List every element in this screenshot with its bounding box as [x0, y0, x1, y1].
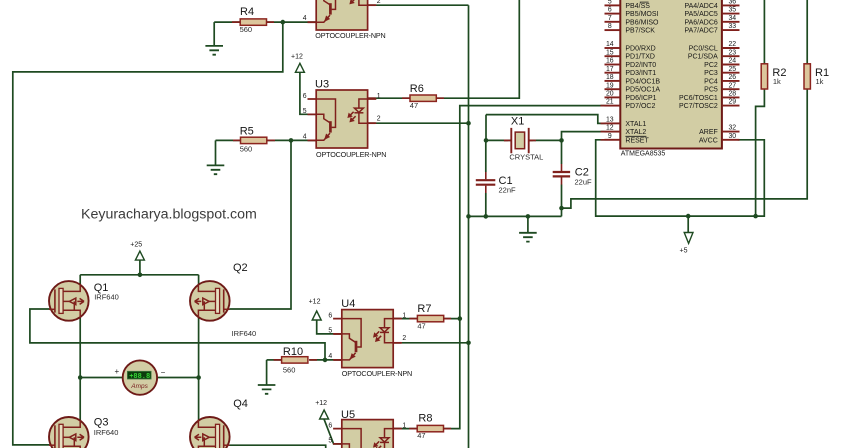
svg-text:8: 8 — [608, 23, 612, 30]
wire rail to Q2 drain — [198, 275, 200, 286]
transistor Q2 IRF640 — [190, 281, 230, 321]
svg-text:PC0/SCL: PC0/SCL — [689, 46, 718, 53]
svg-text:26: 26 — [728, 74, 736, 81]
U2 pin 2 stub — [368, 4, 376, 6]
svg-text:15: 15 — [606, 49, 614, 56]
U1 pin 23 PC1/SDA — [688, 49, 740, 60]
svg-text:5: 5 — [608, 0, 612, 6]
wire node R10 to Q1 gate — [30, 309, 325, 360]
svg-text:PD5/OC1A: PD5/OC1A — [625, 87, 660, 94]
svg-text:560: 560 — [240, 25, 253, 34]
junction node bridge left / meter — [78, 375, 83, 380]
wire ground stem at R4 — [213, 22, 215, 46]
U1 pin 22 PC0/SCL — [689, 41, 740, 52]
wire X1 node to top wire — [485, 115, 487, 141]
svg-text:30: 30 — [728, 133, 736, 140]
power +25 — [130, 242, 144, 261]
U1 pin 33 PA7/ADC7 — [684, 23, 739, 34]
svg-text:PD6/ICP1: PD6/ICP1 — [625, 95, 656, 102]
U1 pin 6 PB5/MOSI — [605, 7, 659, 18]
U3 pin 2 stub — [368, 122, 376, 124]
svg-text:R4: R4 — [240, 6, 254, 18]
svg-text:PB7/SCK: PB7/SCK — [625, 28, 655, 35]
resistor R6 — [410, 95, 436, 101]
wire C2 top lead wire — [561, 140, 563, 164]
svg-text:PD0/RXD: PD0/RXD — [625, 46, 655, 53]
svg-text:R10: R10 — [283, 346, 303, 358]
U1 pin 30 AVCC — [699, 133, 740, 144]
U1 pin 24 PC2 — [704, 58, 739, 69]
wire Q4 gate wire to bottom edge — [230, 445, 326, 448]
svg-text:+12: +12 — [315, 400, 327, 407]
wire +12 stem to U4 pin 5 — [317, 321, 342, 334]
svg-text:5: 5 — [328, 328, 332, 335]
svg-text:23: 23 — [728, 49, 736, 56]
svg-text:27: 27 — [728, 82, 736, 89]
wire rail to Q1 drain — [79, 275, 81, 286]
wire R7 to PD7 net — [443, 318, 460, 320]
wire ground bus under crystal — [469, 215, 562, 217]
svg-text:16: 16 — [606, 58, 614, 65]
junction node ground stem — [526, 214, 531, 219]
U1 pin 35 PA5/ADC5 — [684, 7, 739, 18]
U1 pin 32 AREF — [699, 125, 739, 136]
power +12 (U4) — [309, 299, 322, 321]
svg-text:12: 12 — [606, 125, 614, 132]
svg-text:36: 36 — [728, 0, 736, 6]
wire U4 pin 2 to cathode net — [393, 342, 469, 344]
svg-text:2: 2 — [377, 0, 381, 5]
svg-text:2: 2 — [377, 116, 381, 123]
svg-text:18: 18 — [606, 74, 614, 81]
U1 pin 26 PC4 — [704, 74, 739, 85]
svg-text:5: 5 — [303, 108, 307, 115]
svg-text:X1: X1 — [511, 116, 524, 128]
U1 pin 14 PD0/RXD — [605, 41, 656, 52]
svg-text:PA7/ADC7: PA7/ADC7 — [684, 28, 717, 35]
wire +25 stem — [139, 260, 141, 275]
transistor Q4 IRF640 — [190, 417, 230, 448]
junction node U3.2 on cathode net — [466, 121, 471, 126]
svg-text:13: 13 — [606, 117, 614, 124]
svg-text:PA4/ADC4: PA4/ADC4 — [684, 3, 717, 10]
wire R6 to top edge — [436, 0, 519, 98]
optocoupler U2 — [308, 0, 377, 30]
junction node U4.2 on cathode net — [466, 341, 471, 346]
wire RESET to +5 rail to AVCC — [596, 140, 765, 216]
wire X1 left lead wire — [486, 139, 511, 141]
wire U2 pin 2 to cathode net — [368, 4, 469, 6]
U1 pin 29 PC7/TOSC2 — [679, 99, 739, 110]
resistor R5 pin stubs — [233, 139, 275, 141]
resistor R5 — [241, 137, 267, 143]
U1 pin 9 RESET — [605, 133, 650, 144]
wire U3 pin 1 to R6 — [368, 97, 410, 99]
U1 pin 34 PA6/ADC6 — [684, 15, 739, 26]
svg-text:OPTOCOUPLER-NPN: OPTOCOUPLER-NPN — [315, 31, 385, 40]
svg-text:PD4/OC1B: PD4/OC1B — [625, 78, 660, 85]
wire C1 top lead wire — [485, 140, 487, 172]
svg-text:7: 7 — [608, 15, 612, 22]
wire ground jog to R1 bottom — [562, 89, 808, 208]
svg-text:1: 1 — [402, 312, 406, 319]
svg-text:47: 47 — [410, 101, 418, 110]
junction node R5/U3.4 — [289, 138, 294, 143]
svg-text:PC5: PC5 — [704, 87, 718, 94]
resistor R10 pin stubs — [274, 359, 317, 361]
svg-text:R8: R8 — [418, 413, 432, 425]
svg-text:−: − — [161, 368, 166, 377]
svg-text:PA6/ADC6: PA6/ADC6 — [684, 19, 717, 26]
svg-text:XTAL2: XTAL2 — [625, 129, 646, 136]
resistor R1 — [804, 64, 810, 89]
U1 pin 18 PD4/OC1B — [605, 74, 661, 85]
svg-text:PD1/TXD: PD1/TXD — [625, 54, 655, 61]
svg-text:6: 6 — [328, 312, 332, 319]
svg-text:IRF640: IRF640 — [94, 293, 119, 302]
capacitor C1 22nF — [476, 172, 496, 193]
svg-text:14: 14 — [606, 41, 614, 48]
junction node cathode net on ground bus — [466, 214, 471, 219]
junction node R10/U4.4 — [323, 358, 328, 363]
power +12 (U3) — [291, 54, 304, 73]
svg-text:9: 9 — [608, 133, 612, 140]
svg-text:560: 560 — [283, 365, 296, 374]
svg-text:PB4/SS: PB4/SS — [625, 3, 650, 10]
power +12 (U5) — [315, 400, 328, 419]
junction node C2 bottom / ground — [559, 206, 564, 211]
svg-text:PD3/INT1: PD3/INT1 — [625, 70, 656, 77]
U1 pin 15 PD1/TXD — [605, 49, 655, 60]
U2 pin 4 stub — [308, 21, 317, 23]
svg-text:33: 33 — [728, 23, 736, 30]
resistor R4 — [240, 19, 266, 25]
junction node bridge right / meter — [196, 375, 201, 380]
svg-text:6: 6 — [303, 93, 307, 100]
svg-text:2: 2 — [402, 335, 406, 342]
junction node R2 on +5 rail — [753, 214, 758, 219]
R8 and U5 pin 1 stubs — [393, 428, 451, 430]
ground at R4 — [205, 46, 223, 55]
svg-text:PC3: PC3 — [704, 70, 718, 77]
wire U3 pin 2 to cathode net — [368, 122, 469, 124]
svg-text:Q4: Q4 — [233, 398, 248, 410]
power +5 — [680, 233, 694, 255]
wire PD7/OC2 net vertical to R8 — [443, 106, 605, 429]
U1 pin 27 PC5 — [704, 82, 739, 93]
wire +25 rail — [80, 274, 198, 276]
chip connected pin stubs — [601, 106, 605, 140]
svg-text:AREF: AREF — [699, 129, 718, 136]
wire meter right wire — [157, 377, 199, 379]
ground at R10 — [258, 385, 276, 394]
U1 pin 8 PB7/SCK — [605, 23, 656, 34]
U1 pin 5 PB4/SS — [605, 0, 651, 10]
svg-text:OPTOCOUPLER-NPN: OPTOCOUPLER-NPN — [316, 150, 386, 159]
svg-text:+12: +12 — [309, 299, 321, 306]
crystal stubs — [504, 139, 533, 141]
R6 and U3 pin 1 stubs — [368, 97, 444, 99]
wire C1 bottom lead wire — [485, 193, 487, 216]
svg-text:20: 20 — [606, 91, 614, 98]
svg-text:1k: 1k — [773, 77, 781, 86]
U1 pin 21 PD7/OC2 — [605, 99, 656, 110]
U1 pin 36 PA4/ADC4 — [684, 0, 739, 10]
wire ground stem at R5 — [215, 140, 217, 165]
svg-text:PB6/MISO: PB6/MISO — [625, 19, 659, 26]
wire meter left wire — [80, 377, 123, 379]
U4 pin 2 stub — [393, 342, 401, 344]
resistor R2 — [761, 64, 767, 89]
wire ground stem at R10 — [266, 360, 268, 385]
U1 pin 20 PD6/ICP1 — [605, 91, 657, 102]
crystal X1 — [504, 128, 536, 153]
U1 pin 13 XTAL1 — [605, 117, 647, 128]
wire cathode net vertical — [468, 5, 470, 448]
svg-text:4: 4 — [328, 353, 332, 360]
junction node R4/U2.4 — [281, 20, 286, 25]
svg-text:47: 47 — [417, 322, 425, 331]
svg-text:47: 47 — [417, 431, 425, 440]
svg-text:+88.8: +88.8 — [129, 373, 150, 381]
resistor R4 pin stubs — [232, 21, 274, 23]
optocoupler U5 — [333, 420, 402, 448]
wire U4 pin 1 to R7 — [393, 318, 418, 320]
resistor R10 — [282, 357, 308, 363]
svg-text:19: 19 — [606, 82, 614, 89]
svg-text:PC4: PC4 — [704, 78, 718, 85]
svg-text:+: + — [115, 367, 120, 376]
svg-text:6: 6 — [328, 422, 332, 429]
ground at crystal — [519, 233, 537, 242]
svg-text:PC7/TOSC2: PC7/TOSC2 — [679, 103, 718, 110]
U1 pin 16 PD2/INT0 — [605, 58, 657, 69]
capacitor C2 22uF — [553, 164, 570, 185]
junction node XTAL2/C2 — [559, 138, 564, 143]
svg-text:PC6/TOSC1: PC6/TOSC1 — [679, 95, 718, 102]
svg-text:PB5/MOSI: PB5/MOSI — [625, 11, 658, 18]
ground at R5 — [207, 165, 225, 174]
svg-text:R7: R7 — [417, 303, 431, 315]
svg-text:17: 17 — [606, 66, 614, 73]
U4 pin 4 and 5 stubs — [334, 334, 342, 360]
svg-text:4: 4 — [303, 15, 307, 22]
svg-text:RESET: RESET — [625, 137, 649, 144]
svg-text:Keyuracharya.blogspot.com: Keyuracharya.blogspot.com — [81, 207, 257, 223]
U1 pin 25 PC3 — [704, 66, 739, 77]
U1 pin 19 PD5/OC1A — [605, 82, 661, 93]
wire node R4 to Q3 gate — [13, 22, 283, 445]
svg-text:R5: R5 — [240, 126, 254, 138]
svg-text:+5: +5 — [680, 248, 688, 255]
svg-text:+25: +25 — [130, 242, 142, 249]
svg-text:PD2/INT0: PD2/INT0 — [625, 62, 656, 69]
wire C2 bottom lead wire — [561, 185, 563, 217]
svg-text:AVCC: AVCC — [699, 137, 718, 144]
wire +12 stem to U3 pin 5 — [300, 72, 316, 114]
wire Q1 source to Q3 drain — [79, 316, 81, 421]
wire R4 left lead to ground — [214, 21, 240, 23]
ammeter (Amps meter) — [123, 360, 157, 394]
svg-text:25: 25 — [728, 66, 736, 73]
junction node +25 on rail — [138, 273, 143, 278]
microcontroller U1 ATMEGA8535 body — [620, 0, 722, 149]
wire Q2 source to Q4 drain — [198, 316, 200, 421]
svg-text:1: 1 — [377, 93, 381, 100]
svg-text:22: 22 — [728, 41, 736, 48]
svg-text:22nF: 22nF — [499, 186, 517, 195]
wire crystal top wire to XTAL1 — [486, 115, 605, 124]
junction node R7 on PD7 net — [458, 316, 463, 321]
svg-text:R6: R6 — [410, 83, 424, 95]
svg-text:U4: U4 — [341, 298, 355, 310]
svg-text:PA5/ADC5: PA5/ADC5 — [684, 11, 717, 18]
svg-text:IRF640: IRF640 — [94, 428, 119, 437]
svg-text:+12: +12 — [291, 54, 303, 61]
svg-text:21: 21 — [606, 99, 614, 106]
svg-text:PD7/OC2: PD7/OC2 — [625, 103, 655, 110]
resistor R7 — [417, 315, 443, 321]
svg-text:Q3: Q3 — [94, 416, 109, 428]
wire R2 bottom lead to +5 rail — [756, 89, 765, 216]
wire R1 top lead — [806, 0, 808, 64]
svg-text:35: 35 — [728, 7, 736, 14]
svg-text:OPTOCOUPLER-NPN: OPTOCOUPLER-NPN — [342, 369, 412, 378]
svg-text:5: 5 — [328, 438, 332, 445]
wire R10 left lead to ground — [267, 359, 282, 361]
transistor Q1 IRF640 — [49, 281, 89, 321]
U1 pin 12 XTAL2 — [605, 125, 647, 136]
U1 pin 17 PD3/INT1 — [605, 66, 657, 77]
svg-text:PC1/SDA: PC1/SDA — [688, 54, 718, 61]
svg-text:24: 24 — [728, 58, 736, 65]
wire X1 right lead to XTAL2 node — [529, 139, 562, 141]
svg-text:22uF: 22uF — [575, 178, 593, 187]
wire U5 pin 1 to R8 — [393, 428, 417, 430]
svg-text:4: 4 — [303, 133, 307, 140]
svg-text:6: 6 — [608, 7, 612, 14]
wire node R5 to Q2 gate — [230, 140, 292, 309]
junction node C1 on ground bus — [484, 214, 489, 219]
transistor Q3 IRF640 — [49, 417, 89, 448]
svg-text:IRF640: IRF640 — [232, 329, 257, 338]
wire R4 right lead to U2 pin 4 — [267, 21, 317, 23]
optocoupler U4 — [333, 310, 402, 368]
svg-text:CRYSTAL: CRYSTAL — [509, 152, 543, 161]
svg-text:1k: 1k — [816, 77, 824, 86]
U1 pin 28 PC6/TOSC1 — [679, 91, 739, 102]
wire +5 stem — [687, 216, 689, 232]
resistor R8 — [417, 425, 443, 431]
optocoupler U3 — [308, 90, 377, 148]
svg-text:34: 34 — [728, 15, 736, 22]
junction node +5 stem — [686, 214, 691, 219]
wire R5 left lead to ground — [216, 139, 241, 141]
svg-text:U5: U5 — [341, 409, 355, 421]
junction node XTAL1/C1 — [484, 138, 489, 143]
svg-text:28: 28 — [728, 91, 736, 98]
wire R5 right lead to U3 pin 4 — [267, 139, 316, 141]
svg-text:Q2: Q2 — [233, 262, 248, 274]
svg-text:ATMEGA8535: ATMEGA8535 — [621, 151, 666, 158]
svg-text:29: 29 — [728, 99, 736, 106]
svg-text:560: 560 — [240, 144, 253, 153]
svg-text:1: 1 — [402, 422, 406, 429]
wire R2 top lead — [763, 0, 765, 64]
wire ground stem at crystal — [527, 216, 529, 232]
wire XTAL2 wire — [562, 132, 605, 141]
svg-text:32: 32 — [728, 125, 736, 132]
wire +12 diagonal stem to U5 pin 5 — [324, 419, 342, 444]
wire R10 right lead to U4 pin 4 — [309, 359, 342, 361]
U1 pin 7 PB6/MISO — [605, 15, 660, 26]
svg-text:PC2: PC2 — [704, 62, 718, 69]
U3 pin 4 and 5 stubs — [308, 114, 317, 140]
svg-text:XTAL1: XTAL1 — [625, 121, 646, 128]
R7 and U4 pin 1 stubs — [393, 318, 451, 320]
svg-text:U3: U3 — [315, 79, 329, 91]
svg-text:Amps: Amps — [130, 383, 148, 390]
